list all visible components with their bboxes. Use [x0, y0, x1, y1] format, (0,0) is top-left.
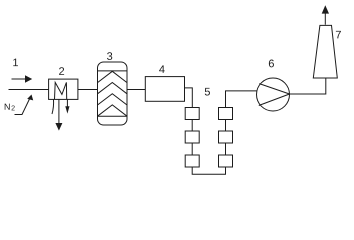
stack 7 — [313, 25, 337, 78]
wire: compressor 6 to stack 7 — [290, 78, 326, 94]
unit 5 square R3 — [219, 155, 233, 167]
mixer unit 2 — [49, 79, 78, 99]
wire: feed line into unit 2 — [9, 89, 49, 91]
label 5 — [205, 88, 210, 96]
label 2 — [59, 67, 64, 75]
unit 5 square R2 — [219, 131, 233, 143]
node N2 label — [5, 104, 15, 111]
wire: train 5 to compressor 6 — [226, 91, 257, 108]
drain line below unit 2 — [52, 99, 54, 114]
unit 5 square L1 — [185, 108, 199, 120]
stream 1 inlet arrow — [12, 75, 33, 82]
stream N2 feed arrow — [15, 95, 34, 115]
wire L2-L3 — [191, 143, 193, 155]
unit 5 square R1 — [219, 108, 233, 120]
wire R2-R1 — [225, 120, 227, 132]
label 1 — [13, 59, 18, 67]
compressor 6 — [257, 78, 290, 111]
unit 4 box — [145, 77, 184, 102]
wire: unit 2 to column 3 — [78, 89, 98, 91]
vent arrow below unit 2 (long) — [55, 99, 62, 130]
wire: unit 4 to train 5 — [185, 88, 193, 108]
wire R3-R2 — [225, 143, 227, 155]
label 6 — [269, 60, 274, 68]
vent arrow below unit 2 (short) — [65, 99, 69, 113]
label 7 — [336, 31, 341, 39]
label 4 — [159, 65, 165, 73]
label 3 — [107, 52, 112, 60]
unit 5 square L3 — [185, 155, 199, 167]
wire L1-L2 — [191, 120, 193, 132]
wire: bottom connector — [192, 167, 225, 174]
stack outlet arrow — [322, 5, 329, 25]
unit 5 square L2 — [185, 131, 199, 143]
packed column 3 — [98, 62, 128, 125]
wire: column 3 to unit 4 — [127, 89, 145, 91]
